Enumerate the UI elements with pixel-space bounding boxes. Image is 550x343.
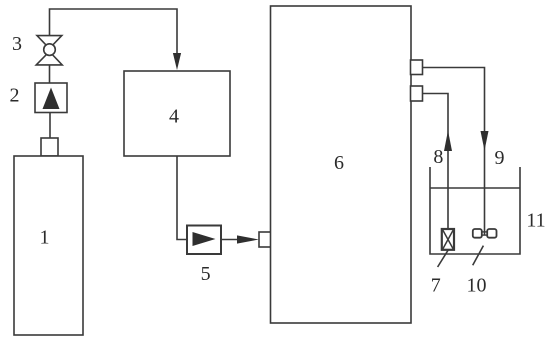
svg-text:9: 9 [495, 147, 505, 169]
arrowhead down on wire 9 [481, 131, 489, 151]
sparger box 7 [442, 229, 454, 250]
filled triangle inside pump 5 [193, 232, 216, 246]
gas cylinder 1 [14, 156, 83, 335]
valve V3 (hourglass valve) [36, 36, 62, 65]
stirrer element 10 [473, 229, 497, 238]
wire 9 from upper connector to stirrer 10 [423, 68, 485, 236]
outlet connector square upper on reactor 6 [411, 60, 423, 75]
arrowhead up on wire 8 [444, 131, 452, 152]
vessel box 4 [124, 71, 230, 156]
svg-text:2: 2 [10, 85, 20, 107]
arrowhead into reactor 6 [237, 235, 259, 243]
svg-text:3: 3 [12, 33, 22, 55]
svg-text:4: 4 [169, 106, 179, 128]
filled triangle inside regulator 2 [43, 88, 60, 110]
water bath vessel 11 [430, 167, 520, 254]
wire 8 from lower connector to sparger 7 [423, 94, 449, 230]
svg-text:10: 10 [467, 275, 487, 297]
wire regulator 2 to cylinder neck [49, 113, 51, 139]
wire from valve 3 up and across to above box 4 [50, 9, 178, 56]
inlet connector square on reactor 6 [259, 232, 271, 247]
wire valve 3 to regulator 2 [49, 65, 51, 83]
svg-text:1: 1 [40, 227, 50, 249]
leader line to label 7 [438, 250, 449, 268]
outlet connector square lower on reactor 6 [411, 86, 423, 101]
pump box 5 [187, 226, 221, 255]
wire pump 5 to reactor 6 [220, 239, 240, 241]
cylinder neck [41, 138, 58, 156]
reactor box 6 [271, 6, 412, 323]
svg-text:8: 8 [433, 146, 443, 168]
water level line in bath 11 [430, 187, 520, 189]
wire box 4 down to pump 5 [177, 156, 187, 240]
arrowhead into box 4 [173, 53, 181, 70]
svg-text:7: 7 [431, 275, 441, 297]
svg-text:5: 5 [201, 263, 211, 285]
leader line to label 10 [473, 246, 484, 266]
svg-text:6: 6 [334, 152, 344, 174]
svg-text:11: 11 [526, 210, 545, 232]
regulator box 2 [35, 83, 67, 113]
X cross inside sparger 7 [443, 230, 454, 250]
